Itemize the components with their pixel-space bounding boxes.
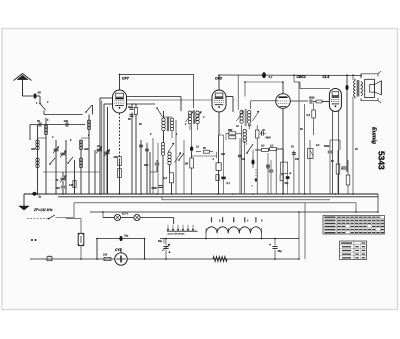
svg-text:150: 150 — [103, 254, 108, 257]
svg-text:ZF=132 kHz: ZF=132 kHz — [33, 208, 53, 212]
svg-text:500: 500 — [144, 164, 149, 167]
svg-text:+: + — [169, 251, 171, 255]
svg-text:50µ: 50µ — [158, 240, 163, 243]
svg-text:50: 50 — [38, 91, 42, 95]
svg-text:Anode 110 125 220: Anode 110 125 220 — [168, 233, 185, 236]
svg-text:+: + — [269, 243, 271, 247]
svg-text:30µ: 30µ — [278, 250, 283, 253]
svg-text:CY2: CY2 — [115, 248, 122, 252]
svg-text:6,3 V: 6,3 V — [122, 212, 128, 216]
svg-text:5000: 5000 — [309, 97, 315, 100]
svg-text:Eumig: Eumig — [371, 127, 377, 145]
svg-text:5000: 5000 — [152, 187, 158, 190]
svg-text:^: ^ — [251, 184, 253, 188]
svg-text:140: 140 — [69, 184, 74, 187]
svg-text:5343: 5343 — [377, 151, 387, 170]
svg-text:300: 300 — [84, 147, 89, 151]
svg-text:500: 500 — [56, 187, 61, 190]
svg-text:CF3: CF3 — [215, 77, 222, 81]
svg-text:0,1: 0,1 — [269, 75, 273, 79]
svg-text:100: 100 — [64, 119, 69, 123]
svg-text:+: + — [289, 172, 291, 176]
svg-text:50µ: 50µ — [285, 183, 290, 185]
svg-text:5000: 5000 — [324, 145, 330, 148]
svg-text:CF7: CF7 — [122, 77, 130, 81]
svg-text:50: 50 — [37, 119, 40, 123]
svg-text:CBC1: CBC1 — [297, 75, 306, 79]
svg-text:300: 300 — [221, 153, 226, 156]
svg-text:0,5: 0,5 — [307, 114, 311, 117]
svg-text:10µ: 10µ — [124, 235, 129, 238]
svg-text:CL4: CL4 — [323, 75, 330, 79]
svg-text:300: 300 — [31, 147, 36, 151]
svg-text:5000: 5000 — [266, 138, 272, 140]
svg-text:100: 100 — [241, 158, 246, 161]
